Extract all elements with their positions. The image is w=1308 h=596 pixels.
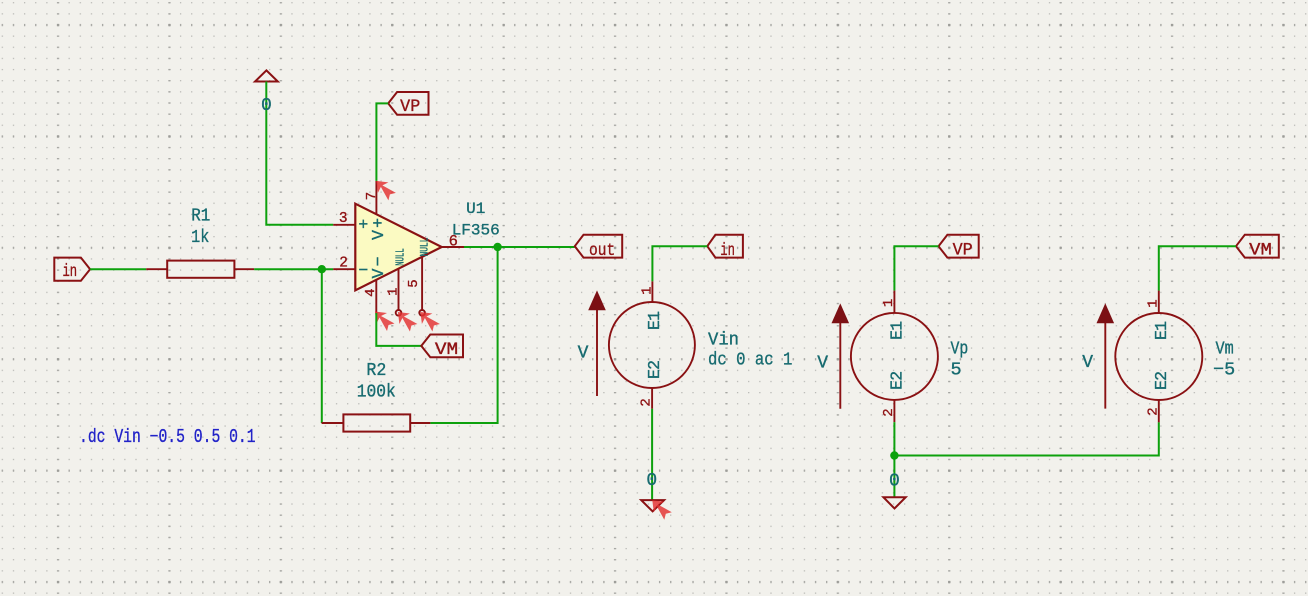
svg-text:2: 2: [1146, 407, 1162, 415]
op-amp pin name V-: [369, 257, 388, 279]
svg-text:7: 7: [364, 192, 380, 200]
svg-text:VP: VP: [953, 241, 973, 261]
Vp V arrow: [817, 303, 849, 408]
svg-text:−5: −5: [1213, 360, 1235, 381]
svg-text:NULL: NULL: [394, 248, 407, 266]
svg-text:V: V: [817, 353, 828, 373]
voltage source Vm: [1115, 291, 1202, 423]
svg-text:4: 4: [363, 288, 379, 296]
wire R2 right up to output junction: [430, 247, 497, 423]
svg-text:2: 2: [339, 256, 348, 272]
svg-text:E1: E1: [645, 311, 664, 330]
svg-text:E2: E2: [887, 371, 906, 390]
svg-text:R1: R1: [191, 206, 210, 226]
svg-text:5: 5: [406, 279, 422, 287]
wire in label to R1: [90, 268, 146, 270]
wire from ground 0 down and to op-amp pin 3: [266, 82, 333, 225]
wire VM label to Vm pin 1: [1159, 246, 1236, 290]
label 100k: [357, 382, 396, 403]
svg-text:0: 0: [261, 96, 272, 116]
voltage source Vin: [609, 281, 695, 408]
ERC marker at pin 7: [376, 181, 396, 201]
op-amp pin name +: [358, 216, 368, 235]
svg-text:E1: E1: [1152, 321, 1171, 340]
ERC marker at pin 5: [420, 312, 440, 332]
node junction at op-amp output: [493, 243, 501, 251]
svg-text:−: −: [358, 261, 368, 280]
svg-text:E2: E2: [645, 360, 664, 379]
wire output to out label: [464, 246, 575, 248]
ERC marker at Vin ground: [652, 500, 672, 520]
svg-text:100k: 100k: [357, 382, 396, 403]
label R2: [366, 360, 386, 381]
svg-text:U1: U1: [466, 200, 485, 218]
svg-text:5: 5: [951, 360, 962, 381]
svg-text:E2: E2: [1152, 371, 1171, 390]
svg-text:1k: 1k: [191, 228, 209, 249]
svg-text:V: V: [1082, 353, 1093, 373]
global label VM (op-amp supply): [421, 335, 463, 360]
label 0 (Vin ground net): [646, 471, 657, 491]
svg-text:3: 3: [339, 211, 348, 227]
wire in label to Vin pin 1: [652, 246, 707, 281]
op-amp pin name -: [358, 261, 368, 280]
svg-text:R2: R2: [366, 360, 386, 381]
svg-text:VP: VP: [400, 98, 420, 118]
ground below Vp: [883, 497, 905, 508]
Vm V arrow: [1082, 303, 1114, 408]
node junction below Vp: [890, 451, 898, 459]
svg-text:V: V: [578, 343, 589, 363]
label 0 (net value of reference ground): [261, 96, 272, 116]
ground 0 (top left reference ground): [255, 70, 278, 81]
wire VP label to Vp pin 1: [894, 246, 938, 290]
op-amp pin name NULL (pin 1): [394, 248, 407, 266]
ERC marker at pin 4: [375, 312, 395, 332]
op-amp pin 1 stub (NULL): [385, 269, 401, 316]
label Vp: [951, 339, 969, 360]
node junction at inverting input: [318, 265, 326, 273]
svg-text:1: 1: [640, 286, 656, 294]
wire Vin pin 2 to ground: [651, 409, 653, 500]
op-amp pin 5 stub (NULL): [406, 257, 425, 316]
svg-text:.dc Vin −0.5 0.5 0.1: .dc Vin −0.5 0.5 0.1: [79, 427, 256, 448]
wire junction to Vm pin 2: [894, 422, 1158, 455]
svg-text:LF356: LF356: [452, 221, 500, 239]
svg-text:in: in: [720, 240, 735, 261]
label 0 (Vp ground net): [889, 472, 900, 492]
label 5: [951, 360, 962, 381]
resistor R2: [322, 414, 431, 431]
op-amp pin name NULL (pin 5): [418, 237, 431, 256]
op-amp pin name V+: [369, 218, 388, 240]
ground below Vin: [641, 500, 664, 511]
svg-text:VM: VM: [435, 338, 458, 359]
label LF356: [452, 221, 500, 239]
ERC marker at pin 1: [398, 312, 418, 332]
svg-text:1: 1: [1146, 299, 1162, 307]
label Vin: [708, 330, 739, 351]
op-amp pin 4 stub (V-): [363, 280, 379, 313]
label -5: [1213, 360, 1235, 381]
op-amp pin 7 stub (V+): [364, 181, 380, 214]
svg-text:0: 0: [889, 472, 900, 492]
svg-text:Vp: Vp: [951, 339, 969, 360]
wire R1 to junction and op-amp pin 2: [254, 268, 333, 270]
global label VP (op-amp supply): [388, 92, 428, 117]
op-amp U1 body: [355, 204, 441, 291]
svg-text:0: 0: [646, 471, 657, 491]
wire Vp pin 2 to ground junction: [893, 422, 895, 497]
op-amp pin 3 stub: [333, 211, 355, 227]
label dc 0 ac 1: [708, 351, 792, 372]
svg-text:Vin: Vin: [708, 330, 739, 351]
global label VM (at Vm): [1236, 235, 1279, 261]
global label VP (at Vp): [939, 235, 979, 261]
wire junction down to R2 left: [321, 269, 323, 423]
op-amp pin 6 stub (output): [442, 232, 464, 250]
label U1: [466, 200, 485, 218]
op-amp pin 2 stub: [333, 256, 355, 272]
label R1: [191, 206, 210, 226]
svg-text:E1: E1: [887, 321, 906, 340]
label Vm: [1216, 339, 1234, 360]
svg-text:dc 0 ac 1: dc 0 ac 1: [708, 351, 792, 372]
svg-text:Vm: Vm: [1216, 339, 1234, 360]
resistor R1: [146, 261, 254, 278]
svg-text:NULL: NULL: [418, 237, 431, 256]
svg-text:1: 1: [385, 287, 401, 295]
svg-text:VM: VM: [1249, 240, 1272, 260]
global label out: [575, 235, 622, 261]
svg-text:2: 2: [639, 398, 655, 406]
voltage source Vp: [851, 291, 938, 423]
spice directive .dc Vin -0.5 0.5 0.1: [79, 427, 256, 448]
wire VP label to pin 7: [376, 103, 388, 180]
label 1k: [191, 228, 209, 249]
svg-text:1: 1: [881, 299, 897, 307]
svg-text:+: +: [358, 216, 368, 235]
svg-text:in: in: [62, 261, 77, 282]
svg-text:out: out: [589, 240, 615, 261]
wire pin 4 to VM label: [376, 313, 421, 346]
Vin V arrow: [578, 290, 606, 396]
global label in (left input): [54, 258, 90, 282]
svg-text:2: 2: [881, 408, 897, 416]
global label in (at Vin): [707, 235, 743, 261]
